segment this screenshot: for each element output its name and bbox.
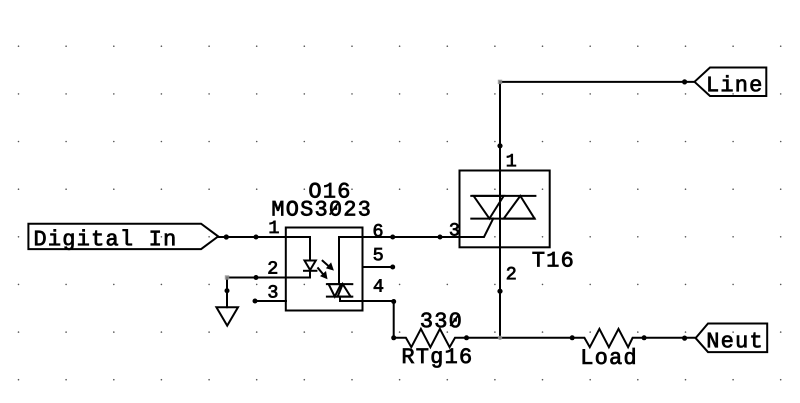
- pin number 2 (opto): [269, 261, 277, 273]
- slashed zero of 330: [451, 315, 459, 325]
- pin number 4 (opto): [374, 279, 383, 291]
- node: opto pin 5 connection: [390, 265, 395, 270]
- pin number 3 (T16): [450, 223, 459, 236]
- wire opto pin 2 to ground: [225, 275, 286, 290]
- node: ground pin connection: [225, 288, 230, 293]
- pin number 1 (opto): [270, 221, 279, 233]
- resistor Load: [572, 329, 695, 347]
- slashed zero of MOS3023: [330, 203, 338, 214]
- node: junction at flag tip: [224, 234, 229, 239]
- ground: [216, 291, 238, 326]
- wire top net to Line flag: [500, 81, 695, 83]
- node: triac T16 gate pin connection: [438, 235, 443, 240]
- node: Load right pin: [642, 335, 647, 340]
- LED arrow 2: [318, 268, 327, 279]
- wire opto internal pin4 lead: [340, 297, 363, 301]
- wire main vertical through T16: [499, 82, 501, 338]
- node: opto pin 3 connection: [253, 299, 258, 304]
- label MOS3023: [273, 201, 370, 216]
- wire opto pin 5 stub: [363, 266, 393, 268]
- triac T16 body: [460, 171, 550, 248]
- flag Neut: [696, 324, 768, 353]
- label T16: [533, 252, 573, 267]
- flag Digital In: [28, 224, 218, 250]
- node: opto pin 4 connection: [391, 299, 396, 304]
- node: opto pin 6 connection: [390, 235, 395, 240]
- wire opto internal pin1 lead: [286, 237, 310, 261]
- LED arrow 1: [323, 261, 334, 271]
- node: junction T16 pin2 to bottom net: [498, 336, 502, 340]
- wire opto internal pin6 lead: [339, 237, 363, 284]
- resistor RTg16: [394, 329, 467, 347]
- pin number 1 (T16): [507, 154, 516, 166]
- node: resistor RTg16 left pin: [391, 335, 396, 340]
- label RTg16: [403, 348, 471, 367]
- node: T16 pin 1 connection: [497, 143, 502, 148]
- node: opto pin 1 connection: [254, 235, 259, 240]
- flag Line: [695, 68, 767, 97]
- pin number 3 (opto): [269, 285, 278, 298]
- label 330: [421, 312, 460, 327]
- wire opto pin 6 to triac gate: [363, 236, 460, 238]
- node: Load left pin: [570, 335, 575, 340]
- triac T16 symbol: [460, 196, 536, 237]
- node: junction at Line flag tip: [682, 79, 687, 84]
- pin number 5 (opto): [374, 248, 383, 260]
- wire opto pin 4 down to resistor: [363, 301, 394, 338]
- node: T16 pin 2 connection: [497, 289, 502, 294]
- node: opto pin 2 connection: [254, 275, 259, 280]
- wire bottom net RTg16 to Load: [467, 337, 573, 339]
- LED inside O16: [286, 261, 316, 278]
- optocoupler O16 body: [286, 228, 363, 311]
- label Load: [583, 348, 635, 364]
- wire opto pin 3 stub: [255, 300, 286, 302]
- label O16: [310, 183, 349, 198]
- node: resistor RTg16 right pin: [464, 335, 469, 340]
- pin number 2 (T16): [507, 267, 515, 279]
- wire Digital In to opto pin 1: [218, 236, 286, 238]
- photo-triac inside O16: [327, 284, 352, 297]
- node: corner marker at Line bend: [498, 80, 502, 84]
- pin number 6 (opto): [374, 224, 383, 237]
- node: junction at Neut flag tip: [682, 336, 687, 341]
